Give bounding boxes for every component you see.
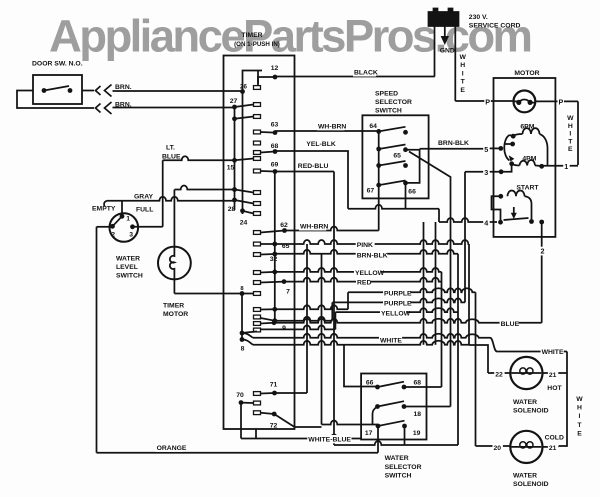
svg-text:GRAY: GRAY (134, 194, 153, 201)
timer junction brn-blk (272, 252, 277, 257)
svg-text:SERVICE CORD: SERVICE CORD (469, 23, 521, 30)
wire hot 21 to white riser (543, 372, 568, 374)
wire riser 72/brnblk to 17 row (321, 254, 323, 425)
svg-text:63: 63 (271, 122, 279, 129)
label 20 (493, 444, 503, 452)
svg-text:5: 5 (484, 145, 488, 154)
svg-text:66: 66 (408, 188, 416, 195)
wire yellow2 lower stub (261, 325, 336, 329)
timer contact purple2 (261, 318, 275, 321)
svg-text:WATER: WATER (116, 256, 140, 263)
timer contact pad p12 (254, 86, 261, 90)
cold solenoid coil (512, 446, 542, 448)
svg-text:21: 21 (549, 445, 557, 452)
svg-text:2: 2 (111, 232, 115, 239)
svg-text:WHITE: WHITE (542, 349, 564, 356)
wire plug to black run (434, 26, 436, 77)
wire white-blue riser to timer 72 pad (255, 429, 257, 439)
wire BRN-BLK row (275, 250, 458, 254)
svg-text:FULL: FULL (136, 207, 153, 214)
wire elbow down to motor4 row (438, 209, 440, 222)
svg-text:WATER: WATER (513, 472, 537, 479)
svg-text:H: H (568, 123, 573, 130)
timer pin 72 exit diagonal (274, 414, 321, 427)
230V service cord plug (429, 9, 459, 27)
speed sel terminal row3 (376, 163, 381, 168)
wire motor terminal 3 (465, 171, 501, 173)
wire white riser right of motor (577, 101, 579, 165)
svg-text:H: H (577, 405, 582, 412)
timer fan dot 8b (240, 337, 245, 342)
wire into terminal 5 (489, 147, 501, 149)
wire start winding right to start switch (525, 196, 532, 221)
timer fan dot 8a (240, 331, 245, 336)
white wire from plug to motor P (454, 26, 456, 101)
svg-text:230 V.: 230 V. (469, 14, 488, 21)
wire left riser down to orange row (96, 227, 98, 453)
svg-text:WH-BRN: WH-BRN (300, 224, 328, 231)
water sel terminal row2 (375, 404, 380, 409)
svg-text:RED-BLU: RED-BLU (298, 163, 329, 170)
timer contact (235, 200, 254, 204)
svg-text:RED: RED (357, 280, 371, 287)
motor terminal 5 contact (498, 146, 503, 151)
label 2 (540, 247, 547, 256)
motor terminal 3 dot (499, 169, 504, 174)
connector chevrons row1 (96, 86, 101, 95)
svg-text:ORANGE: ORANGE (157, 445, 187, 452)
timer pin 70 (239, 400, 244, 405)
svg-text:TIMER: TIMER (241, 32, 262, 39)
svg-text:3: 3 (484, 168, 488, 177)
timer inner vertical bus 69-9 (274, 172, 276, 323)
label WHITE 2 (541, 348, 564, 356)
timer pin 65 (272, 242, 277, 247)
timer bus 8 riser (241, 294, 243, 340)
svg-text:YELLOW: YELLOW (355, 270, 385, 277)
wire yellow2 elbow (334, 312, 336, 329)
timer pin 9 (272, 320, 277, 325)
wire WH-BRN 63 to speed selector 64 (275, 130, 379, 132)
label 5 (483, 145, 490, 154)
svg-text:W: W (576, 396, 583, 403)
svg-text:PINK: PINK (357, 242, 373, 249)
motor box (494, 78, 556, 237)
svg-text:BLACK: BLACK (354, 70, 378, 77)
timer pin 71 (272, 391, 277, 396)
svg-text:68: 68 (414, 379, 422, 386)
motor protector contacts (516, 100, 521, 105)
svg-text:LEVEL: LEVEL (116, 264, 138, 271)
timer bus dot2 (232, 187, 237, 192)
WLS terminal 1 (120, 214, 125, 219)
timer contact 72 (261, 413, 275, 414)
wire WH-BRN 62 to 67 riser (285, 227, 379, 231)
timer junction purple2 (272, 318, 277, 323)
label 4 (483, 219, 490, 228)
water sel blade 3 (378, 421, 405, 426)
timer pin 15 dot (232, 158, 237, 163)
label WH-BRN 1 (317, 122, 344, 130)
timer left bus B (242, 92, 244, 215)
wire WLS terminal2 to left riser (orange) (97, 226, 113, 228)
svg-text:66: 66 (366, 379, 374, 386)
wire WHITE-BLUE row (241, 435, 361, 439)
wire BRN row2 to timer pin 27 (113, 107, 235, 109)
svg-text:BRN-BLK: BRN-BLK (357, 252, 388, 259)
label 21 hot (548, 371, 558, 379)
label ORANGE (156, 444, 183, 452)
label RED (356, 278, 371, 286)
timer contact 63 (261, 131, 276, 134)
timer contact 69 (261, 170, 276, 173)
motor 4PM left dot (509, 161, 514, 166)
motor terminal 4 dot (498, 220, 503, 225)
svg-text:28: 28 (228, 206, 236, 213)
speed sel blade 3 (379, 161, 406, 166)
svg-text:SELECTOR: SELECTOR (375, 99, 412, 106)
svg-text:27: 27 (230, 98, 238, 105)
timer pin 28 dot (240, 208, 245, 213)
svg-text:YEL-BLK: YEL-BLK (306, 141, 336, 148)
timer block outline (224, 56, 295, 430)
WLS terminal 3 (130, 224, 135, 229)
label PINK (356, 241, 375, 249)
label BRN-BLK 1 (437, 139, 469, 147)
timer bus dot (232, 116, 237, 121)
water sel contact 19 (402, 424, 407, 429)
wire PURPLE row 1 (348, 288, 476, 292)
svg-text:64: 64 (369, 123, 377, 130)
timer pin 69 (273, 169, 278, 174)
svg-text:I: I (462, 70, 464, 77)
label YEL-BLK (305, 140, 337, 148)
water sel blade 2 (378, 401, 405, 406)
svg-text:I: I (579, 413, 581, 420)
motor junction 1 (539, 164, 544, 169)
svg-text:1: 1 (126, 216, 130, 223)
water sel terminal 17 (376, 424, 381, 429)
label BLACK (353, 68, 376, 76)
water sel contact 18 (402, 404, 407, 409)
wire BRN-BLK speed sel to motor 5 (420, 148, 489, 150)
label WHITE 1 (379, 336, 402, 344)
wire 20 feed from purple riser (476, 445, 511, 447)
wire 17 riser to orange (377, 426, 379, 453)
wire 65 diagonal down (409, 152, 451, 407)
wire 19 riser (404, 426, 406, 445)
wire 6PM left curl (513, 134, 522, 136)
label BRN-BLK 2 (356, 251, 388, 259)
svg-text:21: 21 (549, 372, 557, 379)
speed sel terminal row2 (376, 147, 381, 152)
label PURPLE 2 (383, 299, 410, 307)
timer pad mid (254, 141, 261, 145)
wire PURPLE1 riser to cold solenoid (475, 292, 477, 446)
WLS blade (empty position) (113, 216, 123, 226)
timer left bus A (234, 107, 236, 210)
wire white to P left (455, 100, 513, 102)
svg-text:P: P (559, 98, 564, 107)
svg-text:YELLOW: YELLOW (381, 310, 411, 317)
timer contact purple1 (261, 308, 275, 310)
svg-text:MOTOR: MOTOR (514, 70, 539, 77)
label P right (558, 98, 565, 107)
svg-text:HOT: HOT (547, 385, 562, 392)
timer contact 27 (235, 105, 254, 108)
wire BLACK run from timer 12 to plug (275, 76, 435, 78)
motor protector circle (514, 91, 536, 113)
timer pin 62 (282, 228, 287, 233)
wire 67 riser to wh-brn2 row (378, 185, 380, 230)
label WHITE-BLUE (307, 435, 351, 443)
timer junction purple1 (272, 307, 277, 312)
svg-text:P: P (485, 97, 490, 106)
svg-text:65: 65 (393, 152, 401, 159)
svg-text:4: 4 (484, 218, 488, 227)
svg-text:WHITE-BLUE: WHITE-BLUE (308, 436, 351, 443)
svg-text:SWITCH: SWITCH (116, 273, 143, 280)
wire cold 21 (543, 446, 559, 448)
wire 18 to 65-diag riser (404, 406, 451, 408)
timer pin 27 dot (232, 105, 237, 110)
wire WHITE row A (253, 334, 490, 338)
wire WHITE step down (490, 338, 497, 352)
wire start winding left bracket (492, 196, 501, 222)
WLS terminal 2 (110, 224, 115, 229)
svg-text:18: 18 (414, 411, 422, 418)
label 22 (494, 370, 504, 378)
wire YELLOW row (275, 268, 442, 272)
wire YEL-BLK lower run to motor 4 feed (348, 205, 439, 209)
timer contact (235, 117, 254, 119)
svg-text:1: 1 (564, 162, 568, 171)
label 3 (483, 169, 490, 178)
wire fan row B (253, 341, 469, 345)
timer contact 9 (261, 322, 275, 325)
motor start switch blade (504, 218, 529, 220)
wire purple2 lower stub (275, 317, 333, 321)
speed sel blade 1 (379, 127, 406, 132)
wire riser fanB to water sel 66 (344, 345, 378, 387)
label YELLOW 1 (354, 269, 381, 277)
wire row2 inner link down to 17 (373, 407, 378, 425)
timer pin 70 riser (240, 403, 242, 439)
svg-text:2: 2 (541, 246, 545, 255)
wire P right to riser (535, 100, 578, 102)
wire BLUE row pin9 to motor 2 (274, 319, 542, 323)
svg-text:I: I (569, 131, 571, 138)
label 1 (563, 162, 570, 171)
label 21 cold (548, 444, 558, 452)
label WH-BRN 2 (299, 222, 326, 230)
svg-text:62: 62 (280, 222, 288, 229)
label WHITE vertical right (576, 394, 584, 437)
svg-text:WHITE: WHITE (380, 337, 402, 344)
svg-text:72: 72 (270, 423, 278, 430)
timer contact 68 (261, 152, 276, 153)
wire PINK drop to solenoid feed (468, 244, 470, 345)
svg-text:BLUE: BLUE (501, 321, 520, 328)
svg-text:22: 22 (495, 371, 503, 378)
svg-text:TIMER: TIMER (163, 303, 184, 310)
svg-text:(ON 1-PUSH IN): (ON 1-PUSH IN) (234, 41, 280, 48)
svg-text:71: 71 (270, 382, 278, 389)
speed sel contact r1 (403, 130, 408, 135)
water level switch WLS (110, 213, 139, 242)
svg-text:W: W (567, 115, 574, 122)
wire 6PM right end down to 1-junction (540, 134, 548, 166)
svg-text:32: 32 (270, 256, 278, 263)
timer pin 26 dot (240, 89, 245, 94)
svg-text:SOLENOID: SOLENOID (513, 408, 549, 415)
wire WLS terminal1 riser to gray row (121, 201, 123, 217)
wire LT BLUE row to timer pin 15 (163, 156, 235, 160)
wire PINK row (275, 240, 469, 244)
cold water solenoid (510, 431, 542, 463)
speed sel blade 4 (379, 181, 406, 186)
wire BRN row1 to timer pin 26 (113, 90, 243, 92)
water selector switch box (361, 374, 426, 440)
svg-text:WH-BRN: WH-BRN (318, 123, 346, 130)
speed selector switch box (362, 115, 428, 198)
wire RED-BLU riser down (333, 172, 335, 446)
wire purple1 lower stub (275, 305, 348, 309)
svg-text:SELECTOR: SELECTOR (385, 464, 422, 471)
wire PURPLE row 2 (332, 298, 465, 302)
label PURPLE 1 (383, 289, 410, 297)
motor centrifugal switch arc (504, 135, 509, 161)
wire GRAY row to timer pin (107, 197, 235, 201)
label RED-BLU (297, 162, 329, 170)
label WHITE vertical service (459, 52, 467, 94)
timer contact 62 (261, 231, 285, 233)
speed sel contact r3 (403, 163, 408, 168)
svg-text:SWITCH: SWITCH (375, 107, 402, 114)
svg-text:24: 24 (240, 220, 248, 227)
wire timer motor to timer pin 8 (174, 293, 242, 295)
label BLUE (500, 320, 519, 328)
wire door sw loop left to row2 (17, 91, 94, 109)
timer pin 72 (272, 412, 277, 417)
svg-text:E: E (460, 87, 465, 94)
svg-text:WATER: WATER (385, 455, 409, 462)
wire WLS terminal3 to lt-blue riser (133, 226, 163, 228)
connector chevrons row2 (96, 104, 101, 113)
wire motor 2 riser down to blue (541, 222, 543, 323)
svg-text:7: 7 (286, 289, 290, 296)
wire 22 feed (488, 372, 510, 374)
wire 4PM right to junction (535, 165, 542, 168)
motor start coil left dot (498, 194, 503, 199)
svg-text:67: 67 (367, 188, 375, 195)
svg-text:17: 17 (365, 430, 373, 437)
wire YELLOW riser down to 68 (441, 272, 443, 387)
svg-text:LT.: LT. (166, 145, 175, 152)
water sel blade 1 (378, 382, 405, 387)
svg-text:3: 3 (129, 232, 133, 239)
timer contact (235, 190, 254, 193)
wire 68 to red riser (404, 386, 442, 388)
svg-text:PURPLE: PURPLE (384, 291, 412, 298)
wire WHITE row to solenoids (497, 351, 567, 353)
timer contact 8 (242, 293, 254, 295)
wire YEL-BLK from 68 (275, 151, 348, 209)
svg-text:W: W (459, 54, 466, 61)
wire riser B (435, 222, 437, 345)
door switch DS1 (33, 75, 82, 104)
wire door sw right to connector row1 (82, 90, 94, 92)
door switch blade (44, 86, 69, 91)
svg-text:8: 8 (241, 346, 245, 353)
svg-text:H: H (460, 62, 465, 69)
svg-text:20: 20 (494, 445, 502, 452)
svg-text:BRN-BLK: BRN-BLK (438, 140, 469, 147)
svg-text:MOTOR: MOTOR (163, 311, 188, 318)
wire PURPLE2 riser to motor 3 (464, 172, 466, 303)
wire pin 71 exit (275, 392, 308, 394)
timer pin 7 (282, 279, 287, 284)
wire timer motor bottom riser (173, 279, 175, 293)
wire row at 445 to 19 (334, 441, 458, 445)
wire gray row left elbow (104, 201, 107, 207)
svg-text:E: E (568, 146, 573, 153)
wire RED-BLU from 69 (275, 171, 334, 173)
wire pin 12 to pad (258, 77, 275, 85)
wire riser A (423, 222, 425, 345)
svg-text:12: 12 (271, 65, 279, 72)
timer pin 28 bus dot (232, 198, 237, 203)
wire solenoid hot feed (469, 345, 488, 373)
svg-text:68: 68 (271, 143, 279, 150)
svg-text:COLD: COLD (545, 435, 564, 442)
speed sel right inner bus (406, 150, 420, 183)
hot solenoid coil (512, 372, 542, 374)
wire ORANGE bottom row (97, 452, 379, 454)
svg-text:BRN.: BRN. (115, 102, 132, 109)
svg-text:SPEED: SPEED (375, 91, 398, 98)
speed sel contact 66 (403, 181, 408, 186)
svg-text:69: 69 (271, 162, 279, 169)
wire BRN-BLK riser down to 19 (457, 254, 459, 445)
label P left (484, 98, 491, 107)
svg-text:9: 9 (282, 325, 286, 332)
timer pin 63 (273, 130, 278, 135)
timer contact 28 (243, 211, 254, 214)
wire timer motor top riser (173, 190, 175, 247)
svg-text:DOOR SW. N.O.: DOOR SW. N.O. (32, 61, 83, 68)
wire white riser to cold 21 (559, 352, 568, 447)
timer pin 12 (273, 75, 278, 80)
timer contact 32 (261, 271, 275, 274)
water sel terminal 66 (375, 385, 380, 390)
wire 17 row feed (322, 421, 379, 425)
label YELLOW 2 (380, 309, 407, 317)
svg-text:GND.: GND. (440, 47, 457, 54)
wire purple2 elbow (331, 302, 333, 320)
wire RED row (284, 278, 442, 282)
timer contact 71 (261, 392, 275, 395)
svg-text:WATER: WATER (513, 399, 537, 406)
timer contact 15 (235, 159, 254, 161)
speed sel terminal 64 (376, 129, 381, 134)
svg-text:26: 26 (240, 84, 247, 91)
ground arrowhead (441, 36, 449, 45)
motor start switch actuator arrow (513, 207, 515, 214)
svg-text:19: 19 (413, 430, 421, 437)
ground lead (444, 26, 446, 37)
timer 8 fan curves (242, 333, 253, 338)
